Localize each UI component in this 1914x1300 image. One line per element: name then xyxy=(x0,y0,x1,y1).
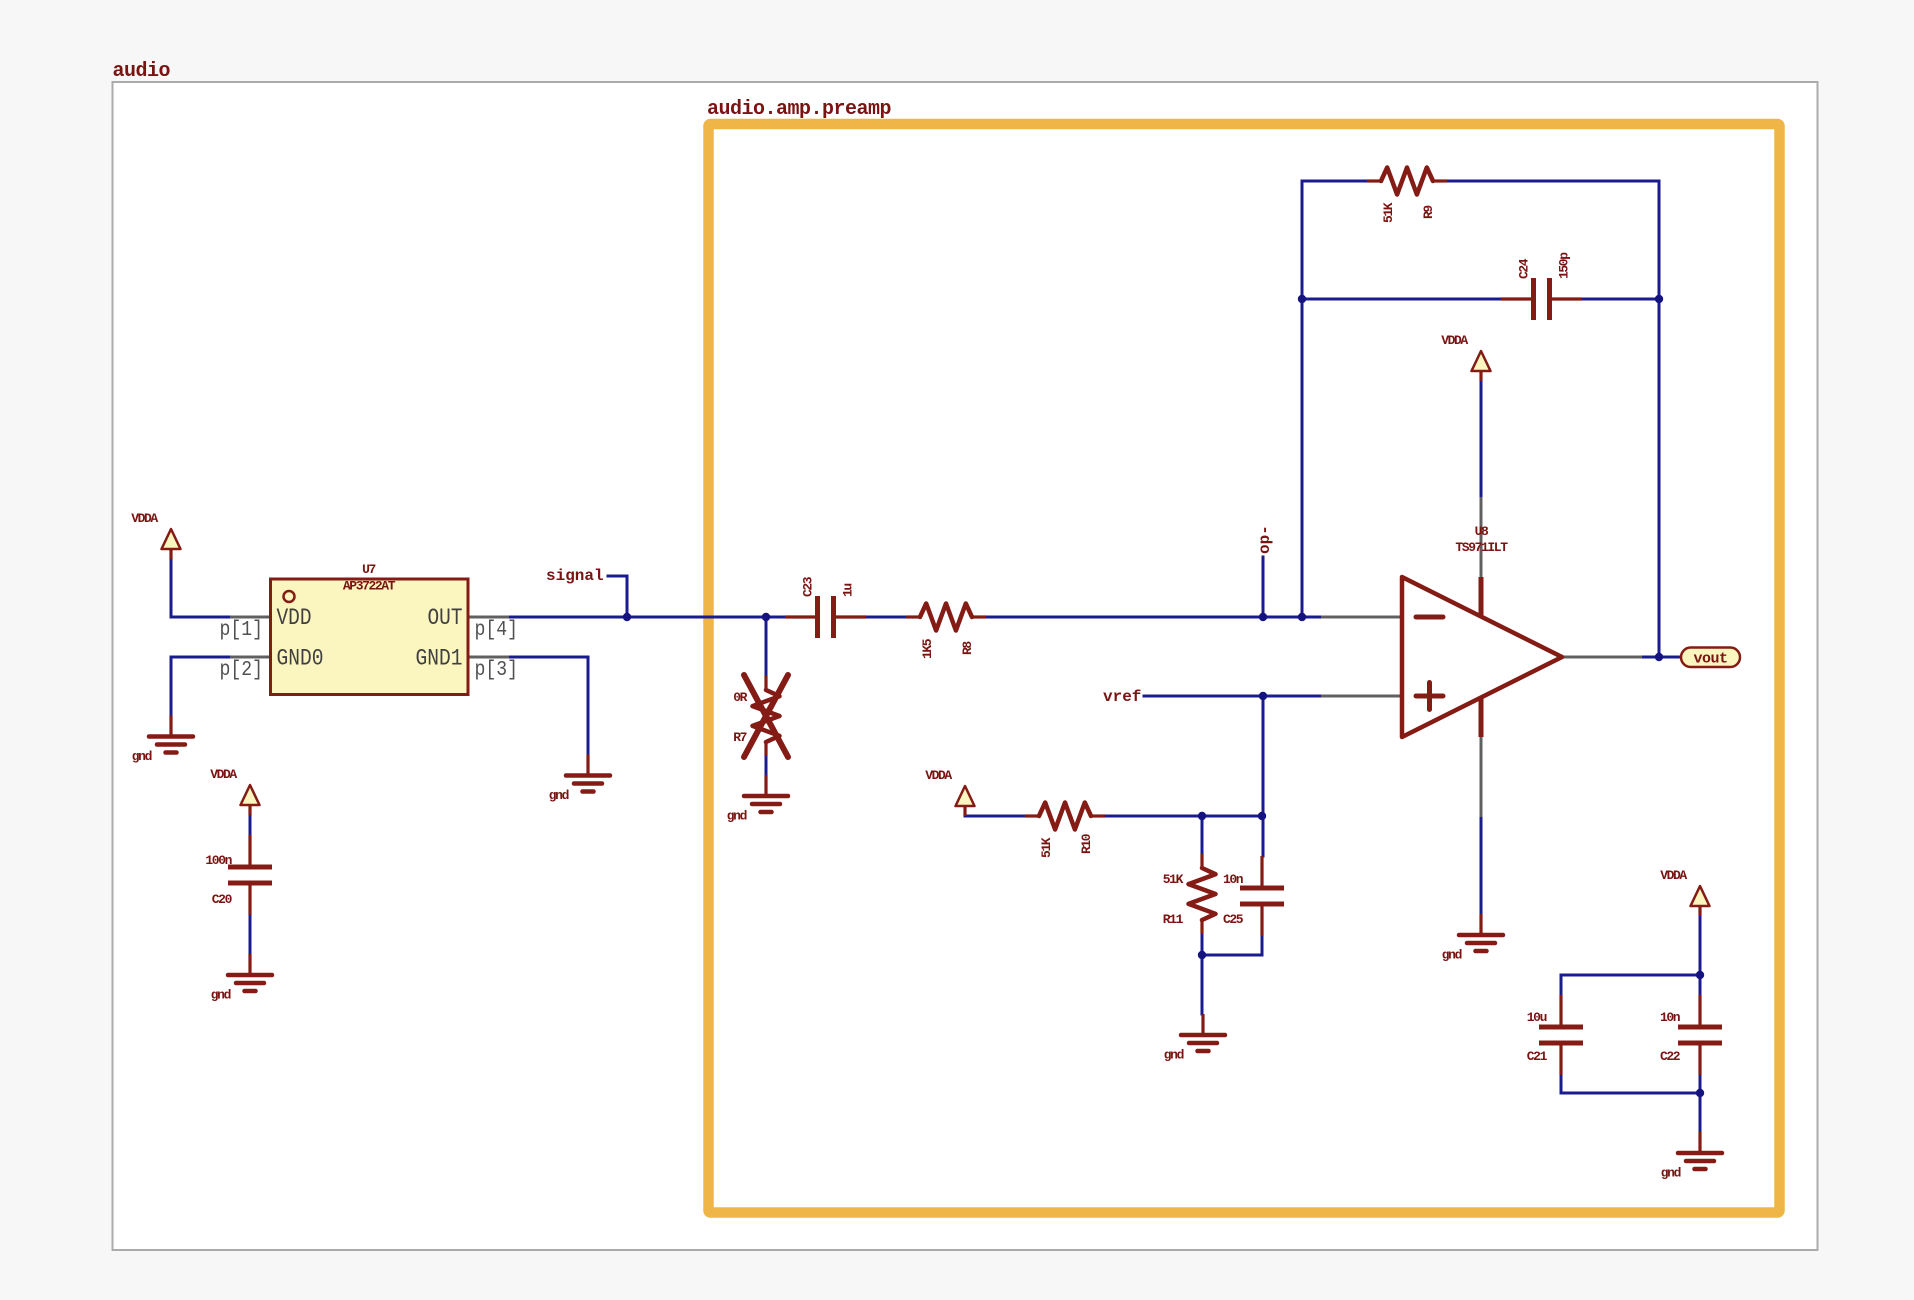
svg-text:AP3722AT: AP3722AT xyxy=(343,579,396,594)
svg-text:audio.amp.preamp: audio.amp.preamp xyxy=(707,98,892,121)
svg-text:0R: 0R xyxy=(733,690,747,705)
svg-text:VDD: VDD xyxy=(277,605,312,631)
svg-text:gnd: gnd xyxy=(132,749,152,764)
svg-text:C24: C24 xyxy=(1517,258,1532,279)
svg-text:p[1]: p[1] xyxy=(220,619,264,642)
svg-text:signal: signal xyxy=(546,567,604,585)
svg-text:R8: R8 xyxy=(960,641,975,655)
svg-text:GND0: GND0 xyxy=(277,646,324,672)
svg-text:R7: R7 xyxy=(733,730,746,745)
svg-text:gnd: gnd xyxy=(1164,1048,1184,1063)
svg-text:GND1: GND1 xyxy=(416,646,463,672)
svg-text:VDDA: VDDA xyxy=(1660,868,1687,883)
svg-text:R9: R9 xyxy=(1421,205,1436,219)
svg-text:p[4]: p[4] xyxy=(475,619,519,642)
svg-text:10n: 10n xyxy=(1223,872,1244,887)
svg-text:U8: U8 xyxy=(1475,524,1489,539)
svg-text:1u: 1u xyxy=(841,584,856,597)
svg-text:R11: R11 xyxy=(1163,912,1184,927)
svg-text:vref: vref xyxy=(1103,688,1141,706)
svg-text:op-: op- xyxy=(1256,525,1274,554)
svg-text:C25: C25 xyxy=(1223,912,1244,927)
svg-text:p[2]: p[2] xyxy=(220,659,264,682)
svg-text:gnd: gnd xyxy=(211,988,231,1003)
svg-text:C23: C23 xyxy=(801,576,816,597)
svg-text:C22: C22 xyxy=(1660,1049,1681,1064)
svg-text:gnd: gnd xyxy=(549,788,569,803)
svg-text:100n: 100n xyxy=(205,853,232,868)
svg-text:VDDA: VDDA xyxy=(1441,333,1468,348)
svg-text:10n: 10n xyxy=(1660,1010,1681,1025)
svg-text:51K: 51K xyxy=(1381,202,1396,223)
svg-text:1K5: 1K5 xyxy=(920,638,935,659)
svg-text:p[3]: p[3] xyxy=(475,659,519,682)
svg-text:R10: R10 xyxy=(1079,833,1094,854)
svg-text:C20: C20 xyxy=(212,892,233,907)
svg-text:51K: 51K xyxy=(1163,872,1184,887)
svg-text:vout: vout xyxy=(1693,651,1727,668)
svg-text:VDDA: VDDA xyxy=(925,768,952,783)
svg-text:VDDA: VDDA xyxy=(131,511,158,526)
svg-text:gnd: gnd xyxy=(727,809,747,824)
svg-text:U7: U7 xyxy=(362,562,375,577)
svg-text:10u: 10u xyxy=(1527,1010,1547,1025)
svg-text:150p: 150p xyxy=(1557,252,1572,279)
svg-text:OUT: OUT xyxy=(428,605,463,631)
svg-text:VDDA: VDDA xyxy=(210,767,237,782)
svg-text:audio: audio xyxy=(113,60,171,83)
svg-text:gnd: gnd xyxy=(1442,948,1462,963)
svg-text:51K: 51K xyxy=(1039,837,1054,858)
svg-text:gnd: gnd xyxy=(1661,1166,1681,1181)
svg-text:C21: C21 xyxy=(1527,1049,1548,1064)
svg-text:TS971ILT: TS971ILT xyxy=(1455,540,1508,555)
